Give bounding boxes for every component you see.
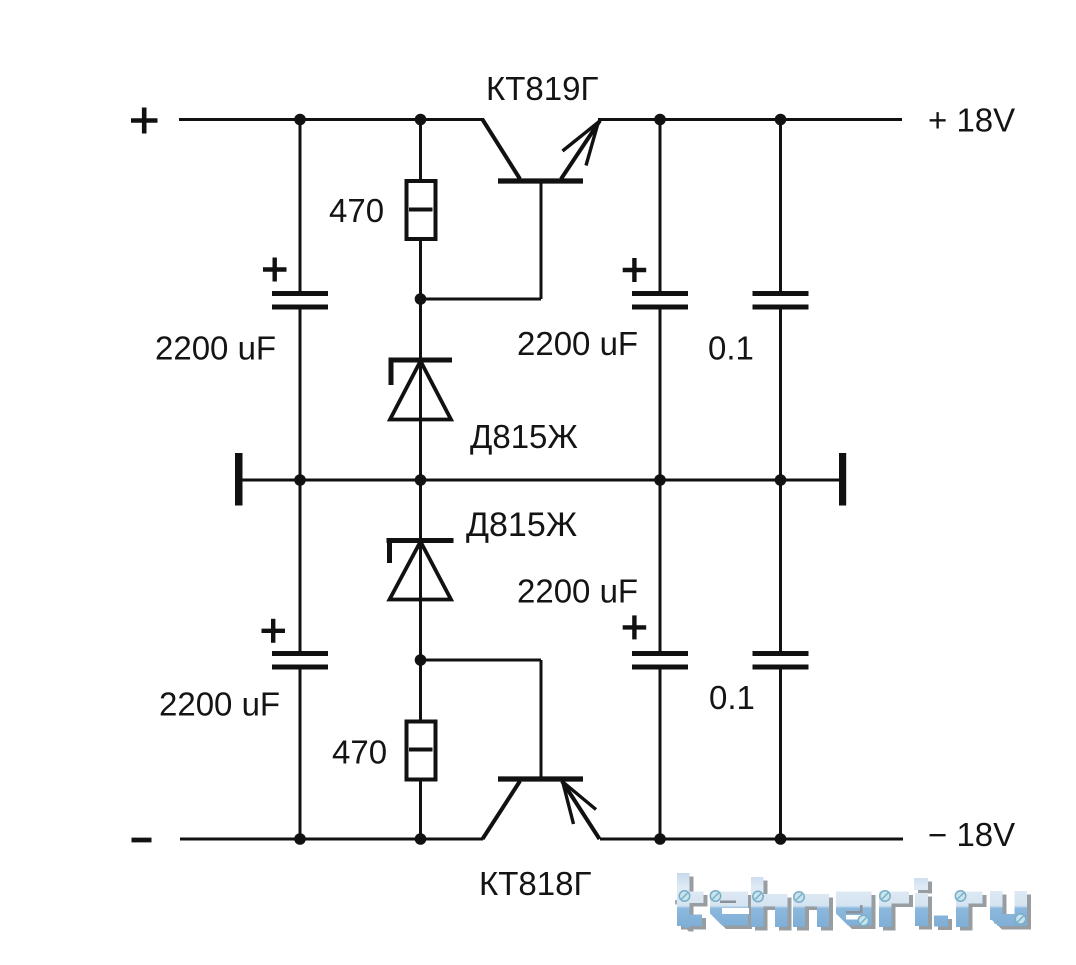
- svg-text:Д815Ж: Д815Ж: [470, 418, 578, 455]
- node - input terminal label: [132, 838, 152, 843]
- capacitor C6 0.1 (bottom output): [753, 654, 809, 668]
- junction dot bottom rail at C2: [294, 833, 306, 845]
- svg-text:2200 uF: 2200 uF: [517, 325, 638, 362]
- junction dot mid rail at C1: [294, 474, 306, 486]
- junction dot bottom rail at R2: [415, 833, 427, 845]
- watermark letter t: [677, 873, 690, 928]
- watermark letter r: [879, 892, 892, 928]
- watermark period: [934, 916, 948, 927]
- watermark letter i: [914, 878, 928, 890]
- ground symbol right: [839, 453, 846, 506]
- wire middle regulator branch x=420: [419, 120, 422, 840]
- junction dot mid rail at C3/C4: [654, 474, 666, 486]
- capacitor C3 polarity +: [623, 258, 647, 282]
- wire top rail left segment: [179, 118, 484, 121]
- svg-text:+ 18V: + 18V: [928, 102, 1015, 139]
- watermark letter u: [990, 891, 1003, 920]
- svg-text:0.1: 0.1: [708, 330, 754, 367]
- wire 0.1 output branch x=780: [779, 120, 782, 840]
- svg-text:КТ818Г: КТ818Г: [479, 865, 591, 902]
- junction dot node R1/VD1/base Q1: [415, 293, 427, 305]
- capacitor C1 polarity +: [263, 258, 287, 282]
- wire bottom rail right segment: [600, 838, 903, 841]
- diode VD1 zener D815Zh (top): [389, 360, 453, 420]
- svg-text:КТ819Г: КТ819Г: [486, 70, 598, 107]
- wire base lead of Q2: [420, 660, 542, 778]
- svg-text:0.1: 0.1: [709, 679, 755, 716]
- junction dot bottom rail at C4: [654, 833, 666, 845]
- node + input terminal label: [131, 108, 158, 134]
- resistor R1 470 (top): [407, 181, 436, 239]
- capacitor C2 polarity +: [262, 619, 286, 643]
- junction dot mid rail at C5/C6: [775, 474, 787, 486]
- capacitor C4 2200uF (bottom output): [632, 654, 688, 668]
- junction dot top rail at C3: [654, 114, 666, 126]
- junction dot top rail at C1: [294, 114, 306, 126]
- wire base lead of Q1: [420, 182, 542, 299]
- svg-text:2200 uF: 2200 uF: [155, 330, 276, 367]
- watermark letter r: [956, 892, 969, 928]
- capacitor C4 polarity +: [623, 615, 647, 639]
- capacitor C5 0.1 (top output): [753, 294, 809, 308]
- junction dot node R2/VD2/base Q2: [415, 654, 427, 666]
- wire middle ground rail: [242, 479, 839, 482]
- junction dot mid rail at zeners: [415, 474, 427, 486]
- svg-text:470: 470: [332, 734, 387, 771]
- watermark letter a: [836, 892, 872, 926]
- wire 2200uF output branch x=660: [659, 120, 662, 840]
- capacitor C2 2200uF (bottom left): [272, 654, 328, 668]
- resistor R2 470 (bottom): [407, 722, 436, 780]
- svg-text:Д815Ж: Д815Ж: [466, 506, 577, 544]
- transistor Q2 KT818G (PNP pass transistor): [483, 779, 600, 839]
- transistor Q1 KT819G (NPN pass transistor): [483, 120, 601, 182]
- wire bottom rail left segment: [180, 838, 483, 841]
- capacitor C1 2200uF (top left): [272, 294, 328, 308]
- junction dot top rail at R1: [415, 114, 427, 126]
- tehnari.ru watermark: [675, 873, 1031, 932]
- wire left capacitor branch x=300: [299, 120, 302, 840]
- watermark letter e: [710, 892, 748, 926]
- diode VD2 zener D815Zh (bottom): [387, 541, 454, 600]
- svg-text:470: 470: [329, 192, 384, 229]
- watermark letter h: [751, 877, 764, 927]
- wire top rail right segment: [598, 118, 902, 121]
- ground symbol left: [235, 453, 243, 506]
- junction dot bottom rail at C6: [775, 833, 787, 845]
- svg-text:2200 uF: 2200 uF: [517, 573, 638, 610]
- svg-text:− 18V: − 18V: [928, 816, 1015, 853]
- capacitor C3 2200uF (top output): [632, 294, 688, 308]
- watermark letter n: [793, 894, 805, 927]
- junction dot top rail at C5: [775, 114, 787, 126]
- svg-text:2200 uF: 2200 uF: [159, 686, 280, 723]
